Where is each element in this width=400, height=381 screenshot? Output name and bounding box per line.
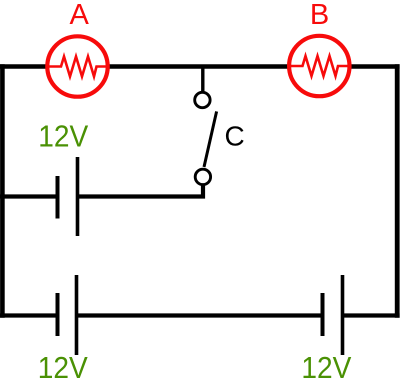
lamp B <box>289 36 349 96</box>
wire: switch bottom stub <box>201 184 204 197</box>
wire: bottom-right segment from battery V3 <box>341 313 400 317</box>
battery V2 positive plate (long) <box>75 275 79 355</box>
wire: bottom-left segment to battery V2 <box>0 313 59 317</box>
svg-text:12V: 12V <box>301 350 351 381</box>
lamp A <box>47 36 107 96</box>
wire: bottom-middle segment from battery V2 to battery V3 <box>75 313 324 317</box>
wire: right vertical <box>395 64 400 318</box>
wire: left vertical <box>0 64 5 318</box>
battery V1 negative plate (short) <box>56 176 60 219</box>
battery V2 negative plate (short) <box>56 293 60 336</box>
wire: top-middle segment between lamp A and lamp B <box>106 64 291 69</box>
switch C top contact <box>195 92 210 107</box>
wire: switch top stub <box>201 67 204 94</box>
wire: top-left segment <box>0 64 50 69</box>
svg-text:C: C <box>225 121 245 152</box>
wire: top-right segment <box>348 64 400 69</box>
battery V3 negative plate (short) <box>321 293 325 336</box>
svg-text:A: A <box>70 0 90 31</box>
svg-text:B: B <box>310 0 329 31</box>
switch C blade <box>204 111 217 167</box>
wire: middle-left segment to battery V1 <box>0 194 59 198</box>
svg-text:12V: 12V <box>38 350 88 381</box>
battery V3 positive plate (long) <box>341 275 345 355</box>
switch C bottom contact <box>195 169 210 184</box>
battery V1 positive plate (long) <box>76 157 80 236</box>
wire: middle segment from battery V1 to switch C <box>76 184 203 197</box>
svg-text:12V: 12V <box>38 119 88 154</box>
